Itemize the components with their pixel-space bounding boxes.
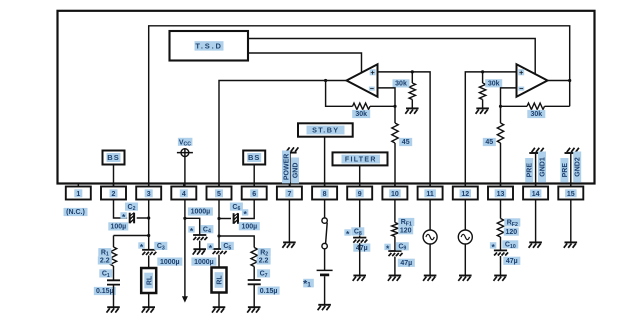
- svg-text:13: 13: [497, 191, 505, 198]
- label 47u C8: [353, 244, 370, 252]
- pin 11 box: [418, 184, 443, 200]
- load RL pin 3: [141, 268, 156, 293]
- wire pin 9 to C8: [359, 200, 361, 238]
- polarity mark C5: [207, 243, 213, 253]
- capacitor C1: [107, 266, 120, 285]
- wire pin 15 to ground: [570, 200, 572, 243]
- ground C9: [388, 276, 401, 281]
- wire pin 14 to ground: [535, 200, 537, 243]
- polarity mark C3: [138, 242, 144, 252]
- svg-text:100µ: 100µ: [110, 224, 126, 231]
- ground 30k U2 bias: [405, 108, 418, 113]
- ground 30k U3 bias: [476, 108, 489, 113]
- wire op-amp U2 - input: [378, 88, 396, 106]
- resistor RF1: [392, 223, 398, 237]
- op-amp U3: [517, 64, 548, 96]
- svg-text:9: 9: [358, 191, 362, 198]
- svg-text:47µ: 47µ: [356, 245, 368, 252]
- label 120 RF1: [398, 226, 413, 234]
- svg-text:0.15µ: 0.15µ: [96, 288, 114, 295]
- wire C8 to ground: [359, 243, 361, 275]
- resistor R1: [110, 236, 116, 267]
- label R1: [98, 248, 111, 257]
- wire RF2 to C10: [500, 237, 502, 250]
- pin 12 box: [453, 184, 478, 200]
- node U2 plus input junction: [411, 70, 414, 73]
- polarity mark C4: [188, 226, 194, 236]
- svg-text:1: 1: [76, 191, 80, 198]
- svg-text:30k: 30k: [355, 111, 367, 118]
- capacitor C2: [130, 213, 134, 224]
- resistor 30k U2 input bias: [409, 72, 415, 108]
- svg-text:1000µ: 1000µ: [191, 209, 211, 216]
- wire zobel2 branch: [219, 236, 254, 248]
- label RF1: [398, 218, 414, 228]
- ground RL pin 5: [212, 307, 225, 312]
- label 30k U3 bias: [485, 79, 502, 87]
- svg-text:BS: BS: [107, 153, 119, 162]
- svg-text:4: 4: [182, 191, 186, 198]
- label C8: [351, 227, 364, 237]
- label PRE pin 14: [525, 158, 533, 183]
- capacitor C4: [193, 235, 207, 240]
- svg-text:8: 8: [323, 191, 327, 198]
- label C3: [154, 242, 167, 252]
- svg-text:GND2: GND2: [575, 157, 582, 177]
- svg-text:GND: GND: [293, 163, 300, 179]
- wire C2 to pin 3 line: [137, 217, 149, 219]
- label GND2 pin 15: [573, 152, 581, 183]
- capacitor C9: [388, 251, 402, 256]
- label 0.15u C1: [94, 287, 116, 295]
- label RF2: [504, 218, 520, 228]
- wire battery to ground: [324, 276, 326, 304]
- svg-text:47µ: 47µ: [506, 258, 518, 265]
- wire C3 to RL: [148, 255, 150, 268]
- svg-text:C5: C5: [223, 243, 231, 251]
- label GND1 pin 14: [538, 152, 546, 183]
- wire Vcc to pin 4: [184, 157, 186, 187]
- svg-text:2.2: 2.2: [100, 258, 110, 265]
- polarity mark C9: [384, 244, 390, 254]
- label 2.2 R1: [98, 256, 112, 264]
- label C7: [257, 269, 270, 279]
- svg-text:0.15µ: 0.15µ: [260, 288, 278, 295]
- ST.BY block: [298, 123, 353, 136]
- wire RL to ground: [148, 293, 150, 307]
- svg-text:RF2: RF2: [507, 220, 518, 228]
- capacitor C3: [142, 250, 156, 255]
- svg-text:120: 120: [400, 227, 412, 234]
- wire BS to pin 2: [113, 165, 115, 187]
- label 45 U3: [483, 138, 496, 146]
- pin 10 box: [382, 184, 407, 200]
- node zobel2 pin5 junction: [217, 234, 220, 237]
- label C4: [200, 225, 213, 234]
- label 2.2 R2: [257, 256, 271, 264]
- svg-text:45: 45: [485, 139, 493, 146]
- svg-text:RL: RL: [146, 275, 153, 285]
- label 100u C6: [239, 222, 260, 230]
- resistor 30k U3 input bias: [479, 72, 485, 108]
- wire branch to C4: [185, 218, 200, 235]
- wire pin 13 to RF2: [500, 200, 502, 219]
- wire pin 11 to source: [429, 200, 431, 231]
- wire pin 8 to switch: [324, 200, 326, 218]
- wire pin 7 to ground: [288, 200, 290, 243]
- label 47u C10: [503, 257, 520, 265]
- ground battery: [318, 305, 331, 310]
- resistor R2: [251, 248, 257, 267]
- wire C9 to ground: [394, 257, 396, 276]
- polarity mark C6: [242, 209, 248, 219]
- node zobel pin3 junction: [147, 234, 150, 237]
- svg-text:C3: C3: [157, 243, 165, 251]
- wire RL2 to ground: [218, 293, 220, 307]
- svg-text:C4: C4: [203, 226, 211, 234]
- label 100u C2: [108, 222, 128, 230]
- node U2 feedback junction: [393, 105, 396, 108]
- svg-text:14: 14: [532, 191, 540, 198]
- wire op-amp U3 + input to pin 12: [465, 72, 516, 187]
- pin 9 box: [347, 184, 372, 200]
- wire op-amp U2 + input to pin 11: [378, 72, 431, 187]
- label 1000u C5: [191, 258, 216, 266]
- pin 7 box: [277, 184, 302, 200]
- pin 6 box: [242, 184, 267, 200]
- svg-text:RL: RL: [217, 275, 224, 285]
- svg-text:47µ: 47µ: [400, 260, 412, 267]
- svg-text:+: +: [370, 68, 374, 77]
- wire C7 to ground: [253, 284, 255, 307]
- signal source V1: [423, 230, 437, 244]
- svg-text:15: 15: [567, 191, 575, 198]
- label 47u C9: [398, 259, 415, 267]
- capacitor C8: [353, 238, 367, 243]
- svg-text:PRE: PRE: [562, 163, 569, 178]
- node C6 pin5 junction: [217, 217, 220, 220]
- svg-text:C1: C1: [102, 271, 110, 279]
- label 1000u C4: [188, 207, 213, 215]
- label 30k U2 feedback: [352, 110, 370, 118]
- svg-text:+: +: [519, 68, 523, 77]
- wire ST.BY to pin 8: [324, 137, 326, 187]
- wire op-amp U2 output to pin 5: [219, 81, 347, 187]
- label POWER: [282, 151, 291, 184]
- ground pin 14: [529, 242, 542, 247]
- node C4 branch junction: [183, 217, 186, 220]
- pin 14 box: [523, 184, 548, 200]
- svg-text:C2: C2: [128, 204, 136, 212]
- label C5: [221, 242, 234, 252]
- svg-text:C6: C6: [232, 204, 240, 212]
- wire pin 4 supply feed: [184, 200, 186, 298]
- polarity mark C2: [120, 212, 126, 222]
- label R2: [258, 248, 271, 257]
- label C10: [502, 240, 518, 250]
- ground C8: [353, 276, 366, 281]
- label 45 U2: [399, 138, 412, 146]
- svg-text:GND1: GND1: [539, 157, 546, 177]
- label 0.15u C7: [258, 287, 280, 295]
- ground pin 15: [564, 242, 577, 247]
- arrowhead supply feed: [182, 296, 188, 302]
- svg-text:5: 5: [217, 191, 221, 198]
- IC body outline U1: [58, 11, 595, 184]
- svg-text:1000µ: 1000µ: [194, 259, 214, 266]
- svg-text:POWER: POWER: [284, 154, 291, 180]
- label C2: [125, 203, 138, 213]
- BS block pin 2: [103, 151, 125, 165]
- svg-text:30k: 30k: [488, 81, 500, 88]
- svg-text:3: 3: [147, 191, 151, 198]
- svg-text:BS: BS: [248, 153, 260, 162]
- svg-text:1000µ: 1000µ: [160, 259, 180, 266]
- svg-text:T.S.D: T.S.D: [195, 42, 222, 51]
- svg-text:30k: 30k: [530, 111, 542, 118]
- ground pin 7: [282, 242, 295, 247]
- svg-text:−: −: [519, 84, 523, 93]
- wire pin 12 to source: [464, 200, 466, 231]
- BS block pin 6: [243, 151, 265, 165]
- svg-text:12: 12: [461, 191, 469, 198]
- FILTER block: [333, 152, 388, 165]
- wire source V1 to ground: [429, 244, 431, 275]
- pin 8 box: [312, 184, 337, 200]
- polarity mark C8: [344, 229, 350, 239]
- wire source V2 to ground: [464, 244, 466, 275]
- svg-text:FILTER: FILTER: [345, 157, 377, 164]
- wire zobel branch to pin 3 line: [114, 235, 149, 237]
- resistor 45 U3 to pin 13: [497, 106, 503, 186]
- wire top feedback rail pin3 to opamp U3 output: [149, 26, 570, 187]
- pin 1 box: [66, 184, 91, 200]
- pin 4 box: [171, 184, 196, 200]
- svg-text:C7: C7: [260, 271, 268, 279]
- wire switch to battery: [324, 249, 326, 270]
- ground C10: [494, 276, 507, 281]
- ground C1: [107, 307, 120, 312]
- label C6: [230, 203, 243, 213]
- signal source V2: [458, 230, 472, 244]
- svg-text:C10: C10: [505, 242, 516, 250]
- wire C5 to RL: [218, 255, 220, 268]
- ground C7: [247, 307, 260, 312]
- svg-text:VCC: VCC: [179, 139, 191, 147]
- node U3 plus input junction: [481, 70, 484, 73]
- svg-text:30k: 30k: [395, 81, 407, 88]
- resistor 30k U2 feedback: [326, 81, 395, 110]
- wire FILTER to pin 9: [359, 165, 361, 186]
- chassis ground PRE GND2 pin 15: [565, 148, 579, 187]
- capacitor C10: [494, 250, 508, 255]
- svg-text:C9: C9: [398, 244, 406, 252]
- battery B1: [317, 270, 333, 275]
- pin 13 box: [488, 184, 513, 200]
- wire T.S.D output to op-amp U2 top: [248, 53, 362, 73]
- svg-text:PRE: PRE: [527, 163, 534, 178]
- ground C4: [193, 249, 206, 254]
- svg-text:120: 120: [505, 229, 517, 236]
- node U3 output junction: [568, 79, 571, 82]
- svg-text:ST.BY: ST.BY: [312, 125, 339, 134]
- pin 3 box: [136, 184, 161, 200]
- wire C1 to ground: [113, 285, 115, 307]
- ground source V1: [423, 276, 436, 281]
- wire C4 to ground: [199, 241, 201, 249]
- node U2 output junction: [324, 79, 327, 82]
- svg-text:C8: C8: [354, 229, 362, 237]
- svg-text:11: 11: [426, 191, 434, 198]
- op-amp U2: [347, 64, 378, 96]
- label 120 RF2: [504, 228, 519, 236]
- label 30k U2 bias: [393, 79, 410, 87]
- svg-text:6: 6: [252, 191, 256, 198]
- wire RF1 to C9: [394, 237, 396, 252]
- label GND pin 7: [291, 158, 300, 184]
- label 1000u C3: [157, 258, 182, 266]
- ground RL pin 3: [142, 307, 155, 312]
- svg-text:45: 45: [402, 139, 410, 146]
- label PRE pin 15: [560, 158, 568, 183]
- wire op-amp U3 output: [548, 80, 570, 82]
- T.S.D block: [170, 31, 249, 61]
- svg-text:100µ: 100µ: [241, 223, 257, 230]
- wire pin 5 down: [218, 200, 220, 250]
- svg-text:(N.C.): (N.C.): [66, 209, 85, 216]
- wire pin 10 to RF1: [394, 200, 396, 223]
- switch SW1 standby: [322, 218, 327, 249]
- resistor RF2: [497, 219, 503, 238]
- wire C10 to ground: [500, 256, 502, 275]
- wire pin 3 down: [148, 200, 150, 250]
- label 30k U3 feedback: [527, 110, 545, 118]
- Vcc supply terminal: [177, 138, 193, 157]
- label C1: [99, 269, 112, 279]
- wire BS to pin 6: [253, 165, 255, 187]
- wire T.S.D output to op-amp U3 top: [248, 39, 535, 75]
- svg-text:2: 2: [112, 191, 116, 198]
- wire C6 to pin 5 line: [219, 218, 231, 220]
- svg-text:2.2: 2.2: [259, 258, 269, 265]
- svg-text:10: 10: [391, 191, 399, 198]
- label C9: [396, 242, 409, 252]
- ground source V2: [458, 276, 471, 281]
- wire op-amp U3 - input: [501, 88, 517, 106]
- capacitor C7: [248, 267, 261, 285]
- capacitor C6: [234, 213, 238, 224]
- capacitor C5: [212, 249, 226, 254]
- pin 2 box: [101, 184, 126, 200]
- wire pin 2 to C2: [114, 200, 128, 219]
- label *1 battery note: [303, 278, 314, 290]
- pin 15 box: [558, 184, 583, 200]
- node U3 feedback junction: [499, 105, 502, 108]
- resistor 30k U3 feedback: [501, 103, 570, 109]
- wire pin 6 to C6: [241, 200, 255, 219]
- svg-text:7: 7: [287, 191, 291, 198]
- chassis ground PRE GND1 pin 14: [529, 148, 543, 187]
- pin 5 box: [207, 184, 232, 200]
- label (N.C.) pin 1: [64, 208, 88, 216]
- resistor 45 U2 to pin 10: [392, 106, 398, 186]
- polarity mark C10: [490, 242, 496, 252]
- svg-text:−: −: [370, 84, 374, 93]
- load RL pin 5: [212, 268, 227, 293]
- node C2 pin3 junction: [147, 216, 150, 219]
- chassis ground POWER GND pin 7: [284, 147, 298, 186]
